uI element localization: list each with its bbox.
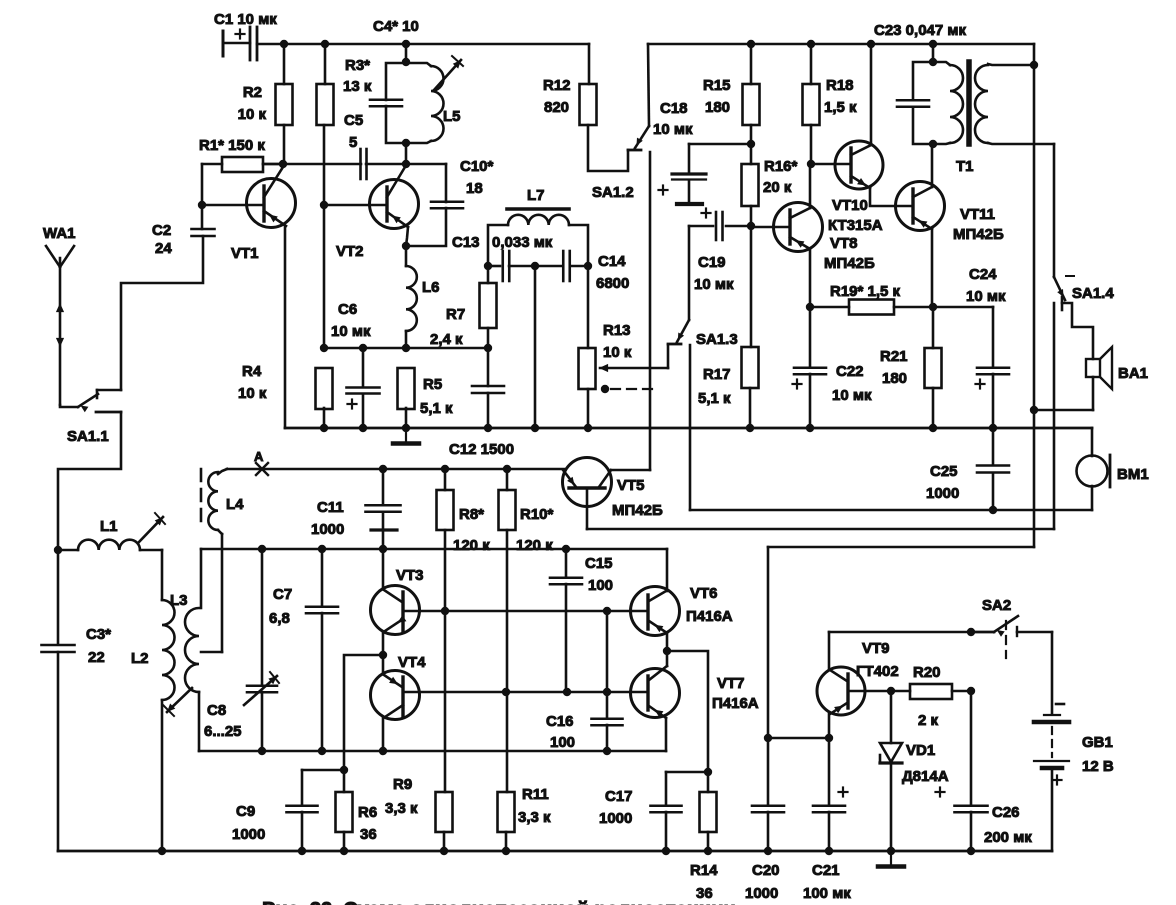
svg-text:C20: C20	[752, 862, 780, 879]
capacitor C9	[287, 804, 318, 807]
wire rail y751	[199, 750, 666, 753]
capacitor C20	[752, 804, 784, 807]
svg-text:10 мк: 10 мк	[832, 387, 872, 404]
svg-text:VT10: VT10	[832, 197, 868, 214]
svg-text:6,8: 6,8	[269, 610, 290, 627]
wire	[931, 144, 934, 187]
svg-text:10 мк: 10 мк	[966, 288, 1006, 305]
svg-text:VT4: VT4	[398, 654, 426, 671]
svg-text:C10*: C10*	[460, 158, 494, 175]
svg-text:C15: C15	[585, 555, 613, 572]
resistor R18	[803, 84, 820, 125]
capacitor C6	[362, 348, 365, 387]
switch SA1.1	[60, 405, 78, 407]
capacitor C15	[550, 576, 582, 579]
resistor R20	[910, 684, 952, 699]
wire	[666, 549, 669, 591]
inductor L4	[218, 469, 227, 474]
capacitor C21	[828, 738, 831, 805]
capacitor C13	[488, 265, 500, 268]
capacitor C8	[247, 684, 277, 687]
svg-text:R11: R11	[522, 786, 549, 803]
inductor L6	[405, 246, 408, 266]
wire	[443, 832, 446, 851]
capacitor C5	[359, 149, 362, 179]
svg-text:R10*: R10*	[520, 506, 554, 523]
VT11 emitter	[913, 217, 932, 229]
capacitor C12	[487, 348, 490, 386]
VT8 emitter	[790, 237, 810, 249]
svg-text:120 к: 120 к	[516, 537, 553, 554]
resistor R16	[742, 164, 759, 206]
wire rail y549 lower	[201, 548, 667, 551]
svg-text:Рис. 32. Схема однодиапазонно: Рис. 32. Схема однодиапазонной радиостан…	[262, 899, 736, 905]
svg-text:5: 5	[349, 134, 357, 151]
wire	[263, 163, 284, 166]
wire SA2 to GB1	[1051, 632, 1054, 714]
capacitor C25	[977, 464, 1009, 467]
svg-text:R5: R5	[423, 376, 442, 393]
transistor VT7	[631, 669, 680, 718]
node A	[256, 463, 268, 475]
wire VT10 emitter to VT11 base	[870, 188, 913, 206]
wire	[932, 388, 935, 428]
inductor L3	[200, 549, 203, 608]
transistor VT11	[896, 182, 945, 231]
VT10 collector	[851, 145, 871, 155]
wire	[666, 651, 669, 666]
VT11 collector	[913, 187, 932, 197]
wire	[890, 763, 893, 851]
T1 secondary winding	[988, 64, 1034, 65]
wire	[570, 265, 588, 268]
svg-text:R19* 1,5 к: R19* 1,5 к	[830, 283, 901, 300]
svg-text:R17: R17	[703, 366, 731, 383]
VT5 emitter diag	[563, 470, 576, 487]
svg-text:BM1: BM1	[1117, 466, 1149, 483]
capacitor C9	[302, 769, 344, 772]
wire ground bus y428	[285, 427, 1092, 430]
wire	[444, 469, 447, 490]
svg-text:A: A	[254, 449, 264, 464]
svg-text:2 к: 2 к	[918, 712, 939, 729]
capacitor C24	[933, 306, 993, 309]
inductor L1	[54, 546, 62, 554]
svg-text:10 мк: 10 мк	[331, 323, 371, 340]
svg-text:120 к: 120 к	[453, 537, 490, 554]
transistor VT5	[563, 458, 612, 507]
wire rail y529 VT5 base to SA1.4	[587, 528, 1054, 531]
wire	[587, 266, 590, 348]
capacitor C1	[222, 31, 225, 56]
resistor R19	[849, 300, 894, 315]
wire	[509, 265, 563, 268]
battery GB1	[1044, 714, 1060, 716]
capacitor C22	[809, 307, 812, 367]
wire	[810, 44, 813, 84]
wire emitter node y738	[768, 737, 829, 740]
wire down to VT9 emitter node	[767, 547, 770, 738]
capacitor C14	[562, 251, 565, 281]
svg-text:L1: L1	[100, 518, 118, 535]
svg-text:R14: R14	[690, 862, 718, 879]
wire	[487, 328, 490, 348]
svg-text:L2: L2	[131, 650, 149, 667]
svg-text:C16: C16	[546, 713, 574, 730]
transistor VT10	[835, 141, 883, 189]
svg-text:C3*: C3*	[86, 626, 111, 643]
wire	[750, 44, 753, 84]
svg-text:VT11: VT11	[960, 206, 995, 223]
wire L3 tap	[201, 651, 222, 654]
resistor R10	[499, 490, 516, 530]
svg-text:R7: R7	[446, 306, 465, 323]
wire C2 to SA1.1	[121, 236, 203, 390]
L3/L4 core dashed	[200, 469, 203, 528]
svg-text:C24: C24	[969, 266, 997, 283]
capacitor C3	[57, 550, 60, 643]
resistor R8	[437, 490, 454, 530]
resistor R4	[316, 368, 333, 409]
svg-text:180: 180	[705, 99, 730, 116]
svg-text:C2: C2	[152, 222, 171, 239]
svg-text:R2: R2	[243, 84, 262, 101]
VT7 collector diag	[649, 666, 667, 680]
svg-text:36: 36	[360, 826, 377, 843]
resistor R7	[480, 283, 497, 328]
wire L4 bottom to L3 tap	[221, 534, 224, 652]
L5 adjust arrow	[434, 60, 461, 90]
capacitor C7	[321, 549, 324, 606]
wire	[202, 163, 222, 166]
wire top bus right	[648, 43, 1034, 46]
wire GB1 to rail	[1051, 768, 1054, 851]
T1 secondary coil	[975, 65, 988, 143]
svg-text:Д814А: Д814А	[902, 768, 949, 785]
svg-text:2,4 к: 2,4 к	[430, 331, 463, 348]
inductor L7	[507, 207, 569, 211]
wire	[809, 164, 812, 208]
capacitor C19	[689, 225, 713, 228]
wire emitter row y348	[324, 347, 488, 350]
VT5 collector diag	[599, 470, 611, 487]
wire VT6 emitter to R14 column	[667, 651, 708, 792]
wire filter mid to bus	[534, 266, 537, 428]
capacitor C26	[970, 691, 973, 805]
svg-text:VT9: VT9	[862, 640, 890, 657]
wire	[218, 530, 222, 534]
inductor L5	[406, 63, 431, 66]
transistor VT3	[371, 586, 420, 635]
svg-text:1000: 1000	[311, 521, 344, 538]
svg-text:R13: R13	[603, 322, 631, 339]
svg-text:МП42Б: МП42Б	[824, 255, 875, 272]
resistor R9	[436, 792, 453, 832]
capacitor C21	[813, 804, 845, 807]
wire	[569, 225, 588, 266]
wire	[810, 125, 813, 164]
T1 primary winding	[933, 62, 950, 65]
wire	[324, 44, 327, 84]
speaker BA1	[1086, 359, 1100, 377]
resistor R12	[588, 44, 591, 84]
L1 adjust arrow	[138, 517, 163, 543]
wire	[665, 718, 668, 751]
svg-text:C13: C13	[452, 234, 480, 251]
T1 primary coil	[950, 65, 963, 143]
wire	[382, 655, 385, 674]
capacitor C10	[445, 164, 448, 202]
svg-text:0,033 мк: 0,033 мк	[492, 234, 553, 251]
svg-text:КТ315А: КТ315А	[828, 217, 883, 234]
wire VT9 base to R20	[848, 690, 891, 693]
wire L2 bottom	[161, 700, 164, 851]
capacitor C23	[897, 99, 929, 102]
VT1 collector	[264, 167, 283, 197]
svg-text:П416А: П416А	[712, 695, 759, 712]
svg-text:VT3: VT3	[396, 567, 424, 584]
capacitor C16	[606, 611, 609, 718]
svg-text:WA1: WA1	[43, 225, 76, 242]
wire SA1.2 lower contact to VT5 collector	[649, 152, 652, 470]
svg-text:L5: L5	[443, 108, 461, 125]
capacitor C8 trimmer	[261, 549, 264, 685]
VT4 lower diag	[385, 705, 403, 717]
svg-text:C7: C7	[273, 586, 292, 603]
switch SA1.3	[677, 320, 689, 342]
resistor R15	[743, 84, 760, 125]
capacitor C17	[666, 771, 708, 774]
capacitor C22	[794, 366, 826, 369]
svg-text:3,3 к: 3,3 к	[518, 809, 551, 826]
svg-text:10 мк: 10 мк	[653, 121, 693, 138]
wire VT4 bypass to R6	[344, 655, 383, 792]
ground bottom	[890, 851, 892, 865]
svg-text:VT7: VT7	[717, 675, 745, 692]
wire VT1 emitter down	[284, 226, 287, 428]
svg-text:П416А: П416А	[686, 608, 733, 625]
transistor VT2	[370, 180, 419, 229]
switch SA1.2	[648, 44, 649, 126]
wire	[283, 44, 286, 84]
svg-text:R21: R21	[880, 348, 908, 365]
svg-text:T1: T1	[956, 158, 974, 175]
svg-text:C14: C14	[598, 253, 626, 270]
svg-text:200 мк: 200 мк	[984, 829, 1032, 846]
wire	[505, 832, 508, 851]
svg-text:100: 100	[588, 577, 613, 594]
wire SA1.3 lower contact down	[689, 345, 692, 510]
VT2 collector	[387, 167, 405, 197]
wire	[406, 227, 408, 246]
inductor L2	[161, 550, 164, 600]
svg-text:R4: R4	[242, 363, 262, 380]
VT6 emitter	[649, 621, 667, 633]
wire VT10 base	[811, 163, 851, 166]
svg-text:12 В: 12 В	[1082, 758, 1114, 775]
svg-text:VT6: VT6	[690, 585, 718, 602]
wire L3 bottom to rail	[198, 692, 201, 751]
wire VT3 collector y611	[403, 610, 648, 613]
svg-text:R20: R20	[913, 664, 941, 681]
inductor L1 coil	[78, 540, 140, 550]
wire	[405, 408, 408, 428]
wire L5 tank	[405, 44, 408, 62]
svg-text:C9: C9	[236, 803, 255, 820]
VT8 collector	[790, 208, 810, 218]
inductor L6 coil	[406, 266, 417, 331]
VT7 emitter	[649, 706, 666, 718]
wire mic rail y510	[690, 509, 1092, 512]
capacitor C16	[592, 717, 623, 720]
wire	[488, 225, 508, 266]
wire BA1 bottom	[1092, 377, 1095, 410]
svg-text:10 к: 10 к	[238, 106, 267, 123]
svg-text:VT8: VT8	[830, 235, 858, 252]
wire	[1017, 631, 1052, 634]
wire speaker return	[1034, 409, 1093, 412]
wire	[894, 306, 933, 309]
wire C5 to VT2 collector node	[366, 163, 446, 166]
svg-text:1,5 к: 1,5 к	[824, 99, 857, 116]
svg-text:5,1 к: 5,1 к	[420, 400, 453, 417]
VT2 emitter	[387, 212, 408, 227]
wire SA1.1 to L1	[58, 412, 121, 550]
wire SA1.4 contact down to rail	[1053, 303, 1056, 529]
wire	[405, 143, 408, 164]
capacitor C20	[767, 738, 770, 805]
transistor VT6	[631, 587, 680, 636]
wire R12 to SA1.2 contact	[588, 125, 628, 171]
svg-text:C22: C22	[836, 363, 864, 380]
resistor R12	[580, 84, 597, 125]
wire	[932, 307, 935, 348]
svg-text:R8*: R8*	[459, 506, 484, 523]
svg-text:R15: R15	[703, 77, 731, 94]
inductor L4 coil	[208, 472, 218, 530]
svg-text:6...25: 6...25	[204, 723, 242, 740]
wire	[587, 389, 590, 428]
svg-text:VT2: VT2	[336, 243, 364, 260]
svg-text:3,3 к: 3,3 к	[385, 800, 418, 817]
svg-text:R18: R18	[826, 77, 854, 94]
transformer T1	[932, 44, 935, 62]
wire bus to BM1	[1091, 428, 1094, 456]
node	[280, 40, 288, 48]
svg-text:C5: C5	[344, 112, 363, 129]
svg-text:1000: 1000	[745, 885, 778, 902]
svg-text:R9: R9	[393, 776, 412, 793]
wire	[828, 714, 831, 738]
svg-text:C19: C19	[698, 254, 726, 271]
svg-text:SA1.2: SA1.2	[592, 184, 634, 201]
transistor VT9	[817, 667, 865, 715]
mechanical link dashes	[601, 385, 609, 393]
wire	[891, 690, 910, 693]
svg-text:C23 0,047 мк: C23 0,047 мк	[874, 22, 966, 39]
resistor R11	[498, 792, 515, 832]
VT6 collector diag	[649, 591, 666, 601]
capacitor C15	[565, 549, 568, 577]
capacitor C4 (in tank)	[370, 98, 402, 101]
svg-text:180: 180	[882, 370, 907, 387]
capacitor C11	[366, 504, 401, 507]
wire	[283, 125, 286, 164]
svg-text:GB1: GB1	[1082, 734, 1113, 751]
capacitor C24	[977, 366, 1009, 369]
VT10 emitter	[851, 176, 870, 188]
capacitor C6	[347, 386, 380, 389]
wire	[707, 832, 710, 851]
wire R8-R9 column	[444, 530, 447, 792]
resistor R21	[925, 348, 942, 388]
svg-text:13 к: 13 к	[343, 78, 372, 95]
svg-text:L7: L7	[527, 187, 545, 204]
wire	[666, 633, 669, 651]
VT1 emitter	[264, 211, 286, 226]
capacitor C10	[431, 200, 463, 203]
node	[321, 40, 329, 48]
zener diode VD1	[890, 691, 893, 743]
svg-text:VD1: VD1	[906, 742, 935, 759]
svg-text:C12 1500: C12 1500	[449, 441, 514, 458]
wire R16-R17	[750, 206, 753, 347]
svg-text:SA2: SA2	[982, 597, 1011, 614]
svg-text:C17: C17	[605, 788, 633, 805]
svg-text:L4: L4	[226, 496, 244, 513]
wire right riser x1034	[1033, 44, 1036, 547]
wire	[809, 249, 812, 307]
VT9 collector diag	[830, 670, 847, 681]
wire	[750, 125, 753, 144]
R13 wiper arrow	[600, 367, 668, 370]
svg-text:VT1: VT1	[231, 245, 259, 262]
wire	[382, 717, 385, 751]
ground below C12	[405, 428, 407, 442]
inductor L5 coil	[431, 66, 444, 141]
wire VT8 base	[751, 226, 790, 229]
inductor L3 coil	[185, 608, 199, 692]
wire SA1.4 to BA1	[1062, 303, 1093, 359]
wire VT5 base down	[586, 488, 589, 529]
capacitor C2	[192, 228, 215, 231]
wire	[487, 266, 490, 283]
resistor R2	[276, 84, 293, 125]
svg-text:18: 18	[466, 180, 483, 197]
wire C19 to SA1.3	[688, 226, 691, 320]
transistor VT1	[247, 179, 296, 228]
capacitor C18	[689, 143, 751, 146]
resistor R5	[398, 368, 415, 409]
wire base	[202, 204, 264, 207]
L2 adjust arrow	[167, 688, 192, 712]
capacitor C7	[306, 605, 338, 608]
wire bottom rail y851	[58, 850, 1052, 853]
resistor R3	[317, 84, 334, 125]
svg-text:100: 100	[550, 734, 575, 751]
svg-text:1000: 1000	[599, 810, 632, 827]
wire VT2 base	[324, 204, 387, 207]
transistor VT4	[371, 671, 420, 720]
wire R3-VT2 base-R4 column	[323, 125, 326, 348]
resistor R14	[700, 792, 717, 832]
wire	[323, 408, 326, 428]
svg-text:МП42Б: МП42Б	[612, 502, 663, 519]
capacitor C13	[501, 251, 504, 281]
svg-text:R3*: R3*	[345, 57, 370, 74]
capacitor C25	[992, 428, 995, 464]
svg-text:R1* 150 к: R1* 150 к	[199, 137, 265, 154]
